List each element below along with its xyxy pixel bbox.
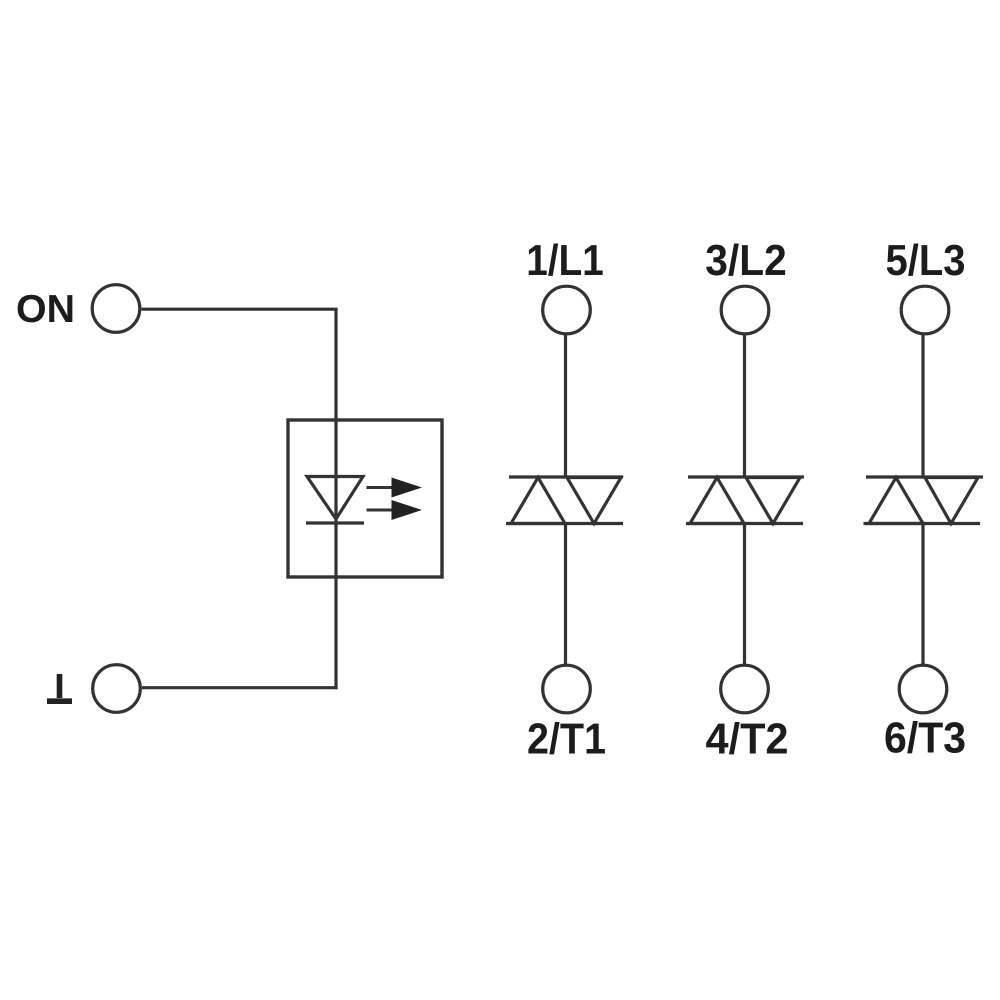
terminal 1/L1 [543, 286, 591, 334]
wire 1/L1 to triac Q1 [564, 334, 567, 477]
wire 3/L2 to triac Q2 [743, 334, 746, 477]
wire triac Q3 to 6/T3 [921, 524, 924, 666]
wire through optocoupler box [334, 420, 337, 577]
wire triac Q2 to 4/T2 [743, 524, 746, 666]
triac Q3 [864, 477, 984, 524]
terminal 4/T2 [721, 665, 769, 713]
label 6/T3 [886, 721, 965, 753]
optocoupler U1 box [288, 420, 442, 577]
label 1/L1 [529, 243, 603, 275]
wire from lower corner to ground terminal [142, 686, 338, 689]
terminal ground [93, 665, 141, 713]
LED emission arrow 1 shaft [367, 486, 394, 489]
terminal 2/T1 [543, 665, 591, 713]
LED emission arrow 1 head [392, 478, 423, 498]
wire triac Q1 to 2/T1 [564, 524, 567, 666]
terminal 3/L2 [721, 286, 769, 334]
wire from ON terminal to corner [142, 308, 338, 311]
LED D1 triangle [307, 477, 363, 520]
wire 5/L3 to triac Q3 [921, 334, 924, 477]
terminal ON [92, 285, 140, 333]
label 4/T2 [706, 722, 787, 754]
label ON [18, 295, 73, 323]
wire from box bottom to lower corner [334, 577, 337, 689]
LED emission arrow 2 head [392, 500, 423, 520]
triac Q1 [506, 477, 623, 524]
label 5/L3 [887, 243, 964, 275]
label 3/L2 [706, 243, 785, 275]
ground symbol [47, 674, 72, 701]
terminal 6/T3 [899, 665, 947, 713]
LED emission arrow 2 shaft [367, 509, 394, 512]
LED D1 cathode bar [306, 521, 364, 524]
terminal 5/L3 [901, 286, 949, 334]
triac Q2 [686, 477, 804, 524]
label 2/T1 [528, 722, 605, 754]
wire down from corner to optocoupler box [334, 309, 337, 420]
